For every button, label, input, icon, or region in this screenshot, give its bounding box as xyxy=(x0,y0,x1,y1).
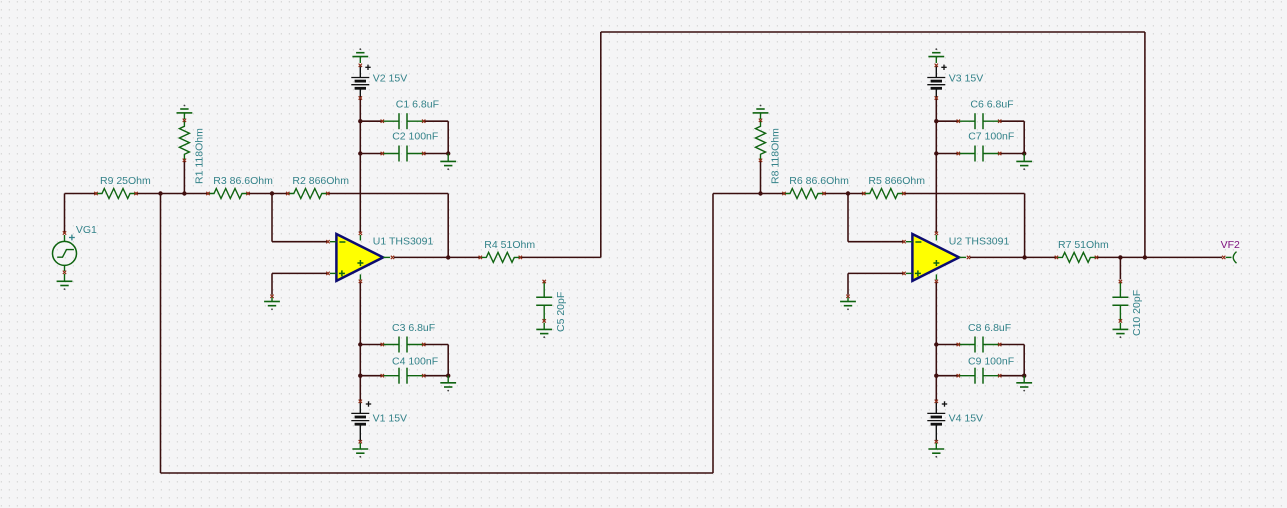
junction node C2 ground xyxy=(446,151,450,155)
wire C3 to C4 right drop xyxy=(447,345,449,376)
junction node V- C8 xyxy=(934,342,938,346)
svg-text:C7 100nF: C7 100nF xyxy=(968,130,1014,142)
svg-text:V1 15V: V1 15V xyxy=(373,412,407,424)
junction node R1 tap xyxy=(182,191,186,195)
capacitor C7 xyxy=(957,146,1002,162)
ground below VG1 xyxy=(57,274,73,290)
junction node V- C4 xyxy=(358,374,362,378)
wire interstage drop to VF2 node xyxy=(1144,32,1146,257)
svg-text:C8 6.8uF: C8 6.8uF xyxy=(968,322,1011,334)
VG1 plus mark xyxy=(69,235,75,241)
svg-text:U1 THS3091: U1 THS3091 xyxy=(373,235,434,247)
ground at U1 noninverting input xyxy=(264,295,280,311)
wire input node down xyxy=(160,194,162,474)
wire U2 output to R7 xyxy=(970,256,1057,258)
voltage source VG1 xyxy=(53,231,77,274)
capacitor C4 xyxy=(381,368,426,384)
wire U2 noninverting run xyxy=(848,272,903,274)
capacitor C1 xyxy=(381,113,426,129)
wire VG1 to R9 xyxy=(65,193,97,195)
wire feedback drop to U2 output xyxy=(1024,194,1026,258)
junction node V+ C2 xyxy=(358,151,362,155)
junction node U2 output xyxy=(1022,255,1026,259)
battery V2 xyxy=(351,64,370,100)
ground right of C7 xyxy=(1016,154,1032,171)
wire U1 V- rail to V1 xyxy=(359,282,361,400)
junction node IN1 xyxy=(158,191,162,195)
wire C2 left xyxy=(360,153,382,155)
svg-text:R6 86.6Ohm: R6 86.6Ohm xyxy=(789,175,849,187)
wire U1 inverting run xyxy=(272,241,327,243)
resistor R9 xyxy=(94,189,137,199)
wire U2 noninverting ground drop xyxy=(847,273,849,294)
svg-text:V4 15V: V4 15V xyxy=(949,412,983,424)
ground below C5 xyxy=(536,323,552,338)
junction node U2 inverting tap xyxy=(846,191,850,195)
battery V4 xyxy=(927,400,947,444)
wire R9 to R3 segment xyxy=(136,193,209,195)
resistor R7 xyxy=(1055,252,1098,262)
svg-text:R2 866Ohm: R2 866Ohm xyxy=(292,175,349,187)
svg-text:R8 118Ohm: R8 118Ohm xyxy=(770,128,782,184)
wire C3 right xyxy=(424,344,448,346)
wire VG1 riser xyxy=(64,194,66,234)
junction node V+ C6 xyxy=(934,119,938,123)
output terminal VF2 xyxy=(1222,252,1237,264)
wire R3 to R2 segment xyxy=(248,193,288,195)
wire C1 left xyxy=(360,120,382,122)
wire C4 right xyxy=(424,375,448,377)
wire C6 right xyxy=(1000,120,1024,122)
junction node VF2 xyxy=(1143,255,1147,259)
wire interstage top run xyxy=(601,31,1145,33)
junction node V- C3 xyxy=(358,342,362,346)
wire U2 inverting drop xyxy=(847,194,849,242)
op-amp U1 xyxy=(326,232,394,283)
wire V2 to U1 V+ rail xyxy=(359,99,361,232)
ground above V3 xyxy=(928,48,944,63)
wire C7 right xyxy=(1000,153,1024,155)
svg-text:C9 100nF: C9 100nF xyxy=(968,356,1014,368)
wire stage2 input segment xyxy=(713,193,785,195)
ground above R8 xyxy=(753,105,769,119)
ground at U2 noninverting input xyxy=(840,295,856,311)
wire R2 to feedback corner xyxy=(328,193,448,195)
battery V1 xyxy=(351,400,371,444)
svg-text:R9 25Ohm: R9 25Ohm xyxy=(100,175,151,187)
wire feedback drop to U1 output xyxy=(447,194,449,258)
junction node C9 ground xyxy=(1022,374,1026,378)
wire C8 to C9 right drop xyxy=(1023,345,1025,376)
wire C2 right xyxy=(424,153,448,155)
svg-text:R7 51Ohm: R7 51Ohm xyxy=(1058,239,1109,251)
capacitor C9 xyxy=(957,368,1002,384)
svg-text:C6 6.8uF: C6 6.8uF xyxy=(970,99,1013,111)
svg-text:R4 51Ohm: R4 51Ohm xyxy=(484,239,535,251)
capacitor C3 xyxy=(381,337,426,353)
junction node V+ C1 xyxy=(358,119,362,123)
wire C7 left xyxy=(936,153,958,155)
wire C1 to C2 right drop xyxy=(447,121,449,153)
ground above R1 xyxy=(177,105,193,119)
wire R1 stem xyxy=(183,161,185,194)
resistor R1 xyxy=(179,119,189,162)
wire R6 to R5 segment xyxy=(824,193,864,195)
ground below C10 xyxy=(1113,323,1129,338)
capacitor C5 xyxy=(536,280,552,323)
resistor R2 xyxy=(286,189,329,199)
junction node R8 tap xyxy=(758,191,762,195)
wire R5 to feedback corner 2 xyxy=(904,193,1025,195)
capacitor C2 xyxy=(381,146,426,162)
junction node C4 ground xyxy=(446,374,450,378)
svg-text:C3 6.8uF: C3 6.8uF xyxy=(392,322,435,334)
capacitor C10 xyxy=(1112,280,1128,323)
wire C4 left xyxy=(360,375,382,377)
svg-text:C1 6.8uF: C1 6.8uF xyxy=(396,99,439,111)
svg-text:VF2: VF2 xyxy=(1221,239,1240,251)
junction node U1 output xyxy=(446,255,450,259)
wire C10 node to VF2 node xyxy=(1120,256,1145,258)
wire C3 left xyxy=(360,344,382,346)
wire U1 inverting drop xyxy=(271,194,273,242)
svg-text:V2 15V: V2 15V xyxy=(373,73,407,85)
ground right of C9 xyxy=(1016,376,1032,392)
svg-text:V3 15V: V3 15V xyxy=(949,73,983,85)
svg-text:R5 866Ohm: R5 866Ohm xyxy=(868,175,925,187)
junction node U1 inverting tap xyxy=(270,191,274,195)
resistor R3 xyxy=(206,189,249,199)
wire C10 stem xyxy=(1119,257,1121,279)
junction node V- C9 xyxy=(934,374,938,378)
junction node C7 ground xyxy=(1022,151,1026,155)
capacitor C6 xyxy=(957,113,1002,129)
ground below V1 xyxy=(352,443,368,458)
ground below V4 xyxy=(928,443,944,458)
svg-text:U2 THS3091: U2 THS3091 xyxy=(949,235,1010,247)
wire interstage riser xyxy=(600,32,602,257)
svg-text:C2 100nF: C2 100nF xyxy=(392,130,438,142)
wire U2 inverting run xyxy=(848,241,903,243)
wire U1 noninverting run xyxy=(272,272,327,274)
wire V3 to U2 V+ rail xyxy=(935,99,937,232)
svg-text:C4 100nF: C4 100nF xyxy=(392,356,438,368)
svg-text:C10 20pF: C10 20pF xyxy=(1131,290,1143,336)
wire R7 to C10 node xyxy=(1096,256,1120,258)
wire R8 stem xyxy=(760,161,762,194)
resistor R6 xyxy=(782,189,825,199)
wire bottom feedback riser xyxy=(712,194,714,474)
junction node V+ C7 xyxy=(934,151,938,155)
capacitor C8 xyxy=(957,337,1002,353)
wire bottom feedback run xyxy=(161,472,714,474)
svg-text:R3 86.6Ohm: R3 86.6Ohm xyxy=(213,175,273,187)
resistor R8 xyxy=(756,119,766,162)
wire R4 to riser xyxy=(521,256,601,258)
ground right of C4 xyxy=(440,376,456,392)
wire C8 left xyxy=(936,344,958,346)
wire C1 right xyxy=(424,120,448,122)
wire U1 output to R4 xyxy=(394,256,480,258)
resistor R4 xyxy=(479,252,522,262)
wire C6 left xyxy=(936,120,958,122)
battery V3 xyxy=(927,64,946,100)
svg-text:R1 118Ohm: R1 118Ohm xyxy=(194,128,206,184)
ground right of C2 xyxy=(440,154,456,171)
wire C9 left xyxy=(936,375,958,377)
wire C8 right xyxy=(1000,344,1024,346)
svg-text:VG1: VG1 xyxy=(76,224,97,236)
svg-text:C5 20pF: C5 20pF xyxy=(555,292,567,332)
wire C6 to C7 right drop xyxy=(1023,121,1025,153)
wire VF2 node to terminal xyxy=(1145,256,1222,258)
junction node C10 xyxy=(1118,255,1122,259)
wire U2 V- rail to V4 xyxy=(935,282,937,400)
op-amp U2 xyxy=(902,232,970,283)
ground above V2 xyxy=(352,48,368,63)
wire U1 noninverting ground drop xyxy=(271,273,273,294)
resistor R5 xyxy=(862,189,905,199)
wire C9 right xyxy=(1000,375,1024,377)
